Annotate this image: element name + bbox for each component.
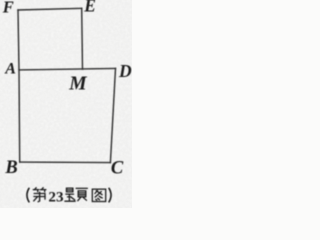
svg-text:E: E: [83, 0, 96, 16]
svg-text:D: D: [118, 61, 132, 81]
svg-text:B: B: [4, 158, 17, 178]
svg-text:F: F: [2, 0, 14, 17]
svg-text:A: A: [4, 60, 16, 77]
svg-text:23: 23: [48, 188, 64, 205]
svg-text:M: M: [68, 74, 87, 95]
svg-text:C: C: [111, 159, 124, 179]
